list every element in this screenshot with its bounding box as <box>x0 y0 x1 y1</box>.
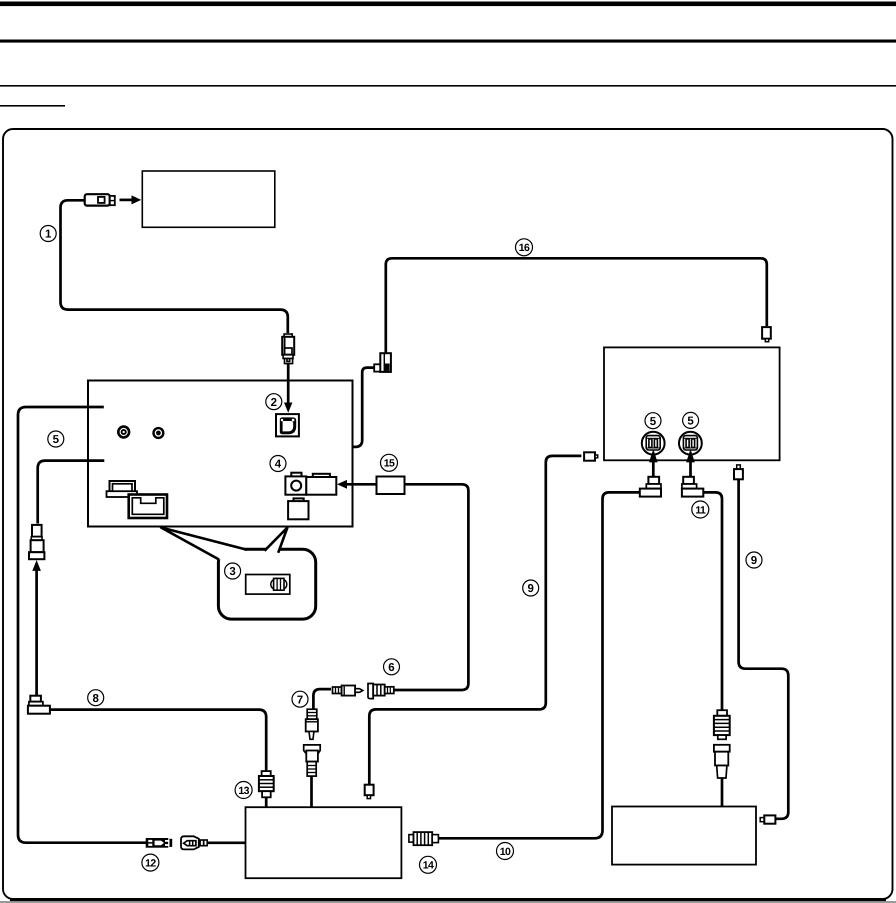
connector 6 socket <box>368 684 394 699</box>
arrow up into antenna socket <box>32 560 41 696</box>
label 6 <box>384 659 400 675</box>
bottom right box <box>612 807 756 865</box>
svg-text:9: 9 <box>751 555 757 567</box>
callout tail right <box>265 528 288 553</box>
svg-text:1: 1 <box>45 229 52 241</box>
wire antenna stub <box>38 461 105 524</box>
svg-text:5: 5 <box>687 416 694 428</box>
antenna socket connector <box>29 525 44 559</box>
wire from plug B down to extension <box>703 492 722 710</box>
svg-text:11: 11 <box>695 504 706 516</box>
connector 12 male spade <box>146 838 173 848</box>
fuse holder in callout <box>246 575 290 595</box>
svg-text:2: 2 <box>271 397 277 409</box>
wire from 12 to box <box>208 841 246 844</box>
round connector B <box>679 432 702 455</box>
ribbed connector upper (extension male) <box>714 710 730 739</box>
connector 2 (square socket) <box>276 414 299 436</box>
label 14 <box>420 856 437 873</box>
label 2 <box>266 394 282 410</box>
label 10 <box>497 843 514 860</box>
wire to connectors 12 (long left wire) <box>18 407 146 843</box>
arrow up into connector A <box>649 449 658 477</box>
label 1 <box>40 226 56 242</box>
ribbed connector lower (extension female) <box>714 745 730 807</box>
RCA jack right <box>154 428 164 438</box>
callout tail left <box>161 528 247 560</box>
label 12 <box>142 854 159 871</box>
label 5 left <box>48 431 64 447</box>
arrow from plug 1 to box <box>120 195 142 204</box>
svg-text:13: 13 <box>238 785 249 797</box>
label 13 <box>235 782 252 799</box>
ISO connector lower <box>129 495 167 519</box>
svg-text:5: 5 <box>650 416 657 428</box>
label 15 <box>381 454 398 471</box>
connector 16 left L-plug <box>295 353 391 471</box>
connector 8 (right-angle plug) <box>28 696 50 714</box>
arrow from 15 to connector 4 <box>337 480 376 489</box>
ISO connector upper <box>107 481 138 497</box>
svg-text:5: 5 <box>53 434 60 446</box>
arrow up into connector B <box>686 449 695 477</box>
svg-text:4: 4 <box>275 459 282 471</box>
wire 16 <box>386 258 767 353</box>
label 8 <box>88 690 104 706</box>
head unit box <box>88 381 353 527</box>
right box (tuner) <box>604 347 780 460</box>
RCA plug horizontal (7) <box>313 686 362 710</box>
plug top end of wire 9 right <box>734 465 743 479</box>
label 5 right A <box>645 413 661 429</box>
plug lower end of wire 9 <box>365 785 374 799</box>
label 11 <box>692 501 709 518</box>
header bar 1 <box>0 2 896 7</box>
wire from plug down to connector 2 with arrow <box>284 364 292 413</box>
RCA plug vertical (7) <box>306 709 318 739</box>
connector plug above 2 (vertical mini plug) <box>282 334 294 364</box>
connector 16 right plug <box>762 327 771 342</box>
connector plug 1 (USB plug to box) <box>85 194 115 205</box>
connector 12 female spade <box>181 836 208 849</box>
box 15 <box>377 477 405 495</box>
connector 4 (camera unit) <box>285 473 336 520</box>
wire 1 <box>61 200 288 333</box>
svg-text:16: 16 <box>519 242 530 254</box>
svg-text:15: 15 <box>384 458 395 470</box>
socket below 7 <box>304 745 321 807</box>
connector 14 (ribbed inline) <box>409 832 439 845</box>
round connector A <box>642 432 665 455</box>
svg-text:8: 8 <box>92 693 99 705</box>
label 9 left <box>523 580 539 596</box>
label 7 <box>292 691 308 707</box>
label 9 right <box>746 552 762 568</box>
svg-text:3: 3 <box>229 566 235 578</box>
svg-text:6: 6 <box>388 662 394 674</box>
plug right end of wire 9 <box>584 452 598 460</box>
label 3 <box>225 563 241 579</box>
connector 13 (ribbed plug) <box>259 771 274 807</box>
device box (top) <box>142 171 274 227</box>
page edge shadow <box>0 901 896 903</box>
title underline <box>0 105 65 107</box>
wire 8 <box>50 710 266 771</box>
header bar 2 <box>0 40 896 43</box>
label 5 right B <box>683 412 699 428</box>
right-angle plug under A <box>640 477 661 497</box>
bottom center box <box>246 807 402 878</box>
wire 9 right <box>739 479 789 819</box>
wire 10 <box>439 492 640 838</box>
svg-text:14: 14 <box>423 860 434 872</box>
wire 9 left <box>369 456 581 785</box>
RCA jack left <box>118 427 129 438</box>
right-angle plug under B <box>682 477 703 497</box>
label 16 <box>516 239 533 256</box>
wire 6 from box 15 <box>394 484 468 690</box>
svg-text:10: 10 <box>500 846 511 858</box>
header rule <box>0 85 896 87</box>
label 4 <box>270 456 286 472</box>
svg-text:12: 12 <box>145 858 156 870</box>
svg-text:7: 7 <box>297 694 303 706</box>
plug at bottom right box <box>760 815 775 823</box>
svg-text:9: 9 <box>527 583 533 595</box>
callout box 3 <box>218 549 315 619</box>
